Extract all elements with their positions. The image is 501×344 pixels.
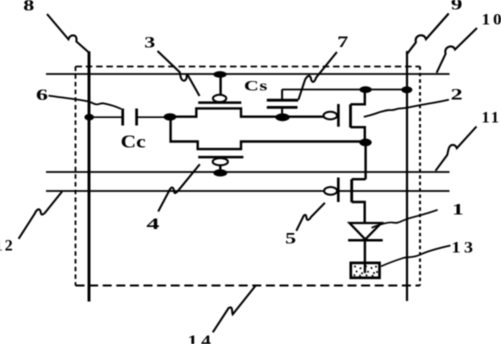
transistor Q2: drain arm to top node [351, 92, 365, 104]
svg-text:7: 7 [337, 34, 348, 51]
svg-text:3: 3 [144, 34, 155, 51]
capacitor Cs: top stub [281, 90, 283, 100]
electrode box 13 stipple dots [353, 265, 378, 277]
transistor Q5: gate bar [337, 178, 340, 203]
leader line for label 11 [436, 127, 477, 171]
svg-text:4: 4 [146, 216, 159, 233]
svg-text:2: 2 [451, 87, 463, 104]
transistor Q5: channel bar [350, 179, 353, 202]
wire: line 8 to capacitor Cc [89, 116, 122, 118]
electrode box 13 (stippled) [351, 263, 380, 278]
pixel boundary dashed box 14 : top edge [76, 66, 421, 68]
transistor U4: gate bubble [213, 158, 228, 165]
leader line for label 1 [372, 210, 438, 228]
svg-text:Cs: Cs [244, 78, 268, 94]
node A dot (Cc junction) [164, 113, 177, 120]
horizontal scan line (pointed by 11/4) [46, 171, 450, 173]
svg-text:1: 1 [452, 201, 464, 218]
node dot on line 8 [84, 114, 94, 121]
leader line for label 13 [381, 246, 451, 267]
svg-text:9: 9 [451, 0, 463, 13]
wire: diode to electrode box 13 [364, 240, 366, 273]
svg-text:Cc: Cc [121, 132, 146, 152]
pixel boundary dashed box 14 : left edge [75, 67, 77, 286]
vertical line 9 [406, 51, 408, 301]
capacitor Cc left plate [121, 109, 124, 126]
horizontal supply line (top, pointed by 10) [46, 73, 450, 75]
svg-text:14: 14 [188, 333, 215, 344]
transistor Q2: gate bubble [324, 112, 338, 120]
transistor U3: node dot on top line [213, 71, 226, 78]
transistor U4: gate stub [219, 165, 221, 171]
leader line for label 12 [19, 192, 62, 239]
transistors 3/4 shared diffusion loop: top rail with raised tab (T3 channel) continuing to T2 gate [170, 108, 325, 116]
wire: Cs top plate to line 9 [282, 89, 407, 91]
diode D1 (OLED): anode triangle [350, 223, 382, 239]
transistors 3/4 loop: left edge, bottom rail with lowered tab (T4 channel), wire to T2 source node [171, 117, 364, 149]
leader line for label 9 [407, 14, 449, 55]
leader line for label 10 [437, 28, 477, 73]
node dot at line 9 on wire [401, 86, 412, 93]
capacitor Cc right plate [135, 109, 138, 126]
capacitor Cs: node dot on T2 gate wire [275, 113, 289, 121]
transistor U3: gate bar [198, 101, 241, 104]
transistor Q2: channel bar [349, 104, 352, 127]
svg-text:10: 10 [482, 11, 501, 28]
leader line for label 7 [298, 52, 337, 100]
wire: Cc to node A [138, 116, 171, 118]
svg-text:12: 12 [0, 237, 15, 254]
vertical data line 8 [88, 51, 91, 301]
transistor U3: gate stub [219, 74, 221, 95]
leader line for label 4 [158, 164, 200, 211]
leader line for label 5 [296, 203, 325, 231]
leader line for label 8 [47, 14, 89, 52]
transistor U3: gate bubble [213, 95, 226, 102]
diode D1: cathode bar [348, 239, 383, 242]
capacitor Cs: top plate [267, 99, 298, 102]
svg-text:6: 6 [36, 87, 48, 104]
transistor Q2: gate bar [337, 104, 340, 127]
svg-text:8: 8 [23, 0, 34, 14]
wire: junction down to transistor Q5 [364, 143, 366, 180]
node dot: Q2 source / T5 drain junction [359, 139, 371, 147]
transistor Q5: source arm down to diode [352, 202, 365, 223]
transistor Q5: gate bubble on scan line [324, 187, 337, 195]
pixel boundary dashed box 14 : right edge [419, 67, 421, 286]
svg-text:11: 11 [482, 110, 501, 127]
pixel boundary dashed box 14 : bottom edge [76, 285, 421, 287]
leader line for label 6 [49, 96, 122, 109]
capacitor Cs: bottom plate [267, 106, 298, 109]
transistor Q2: source arm to bottom node [351, 127, 365, 142]
leader line for label 2 [364, 100, 449, 117]
leader line for label 14 [213, 286, 256, 332]
svg-text:5: 5 [285, 230, 296, 247]
capacitor Cs: bottom stub [281, 107, 283, 114]
svg-text:13: 13 [452, 239, 477, 256]
transistor Q5: drain arm [352, 178, 366, 180]
horizontal scan line (pointed by 12, gate of T5) [46, 190, 450, 192]
leader line for label 3 [158, 51, 200, 96]
node dot at T2 drain on wire [359, 86, 371, 93]
transistor U4: node dot on scan line [213, 169, 227, 176]
transistor U4: gate bar [198, 156, 243, 159]
